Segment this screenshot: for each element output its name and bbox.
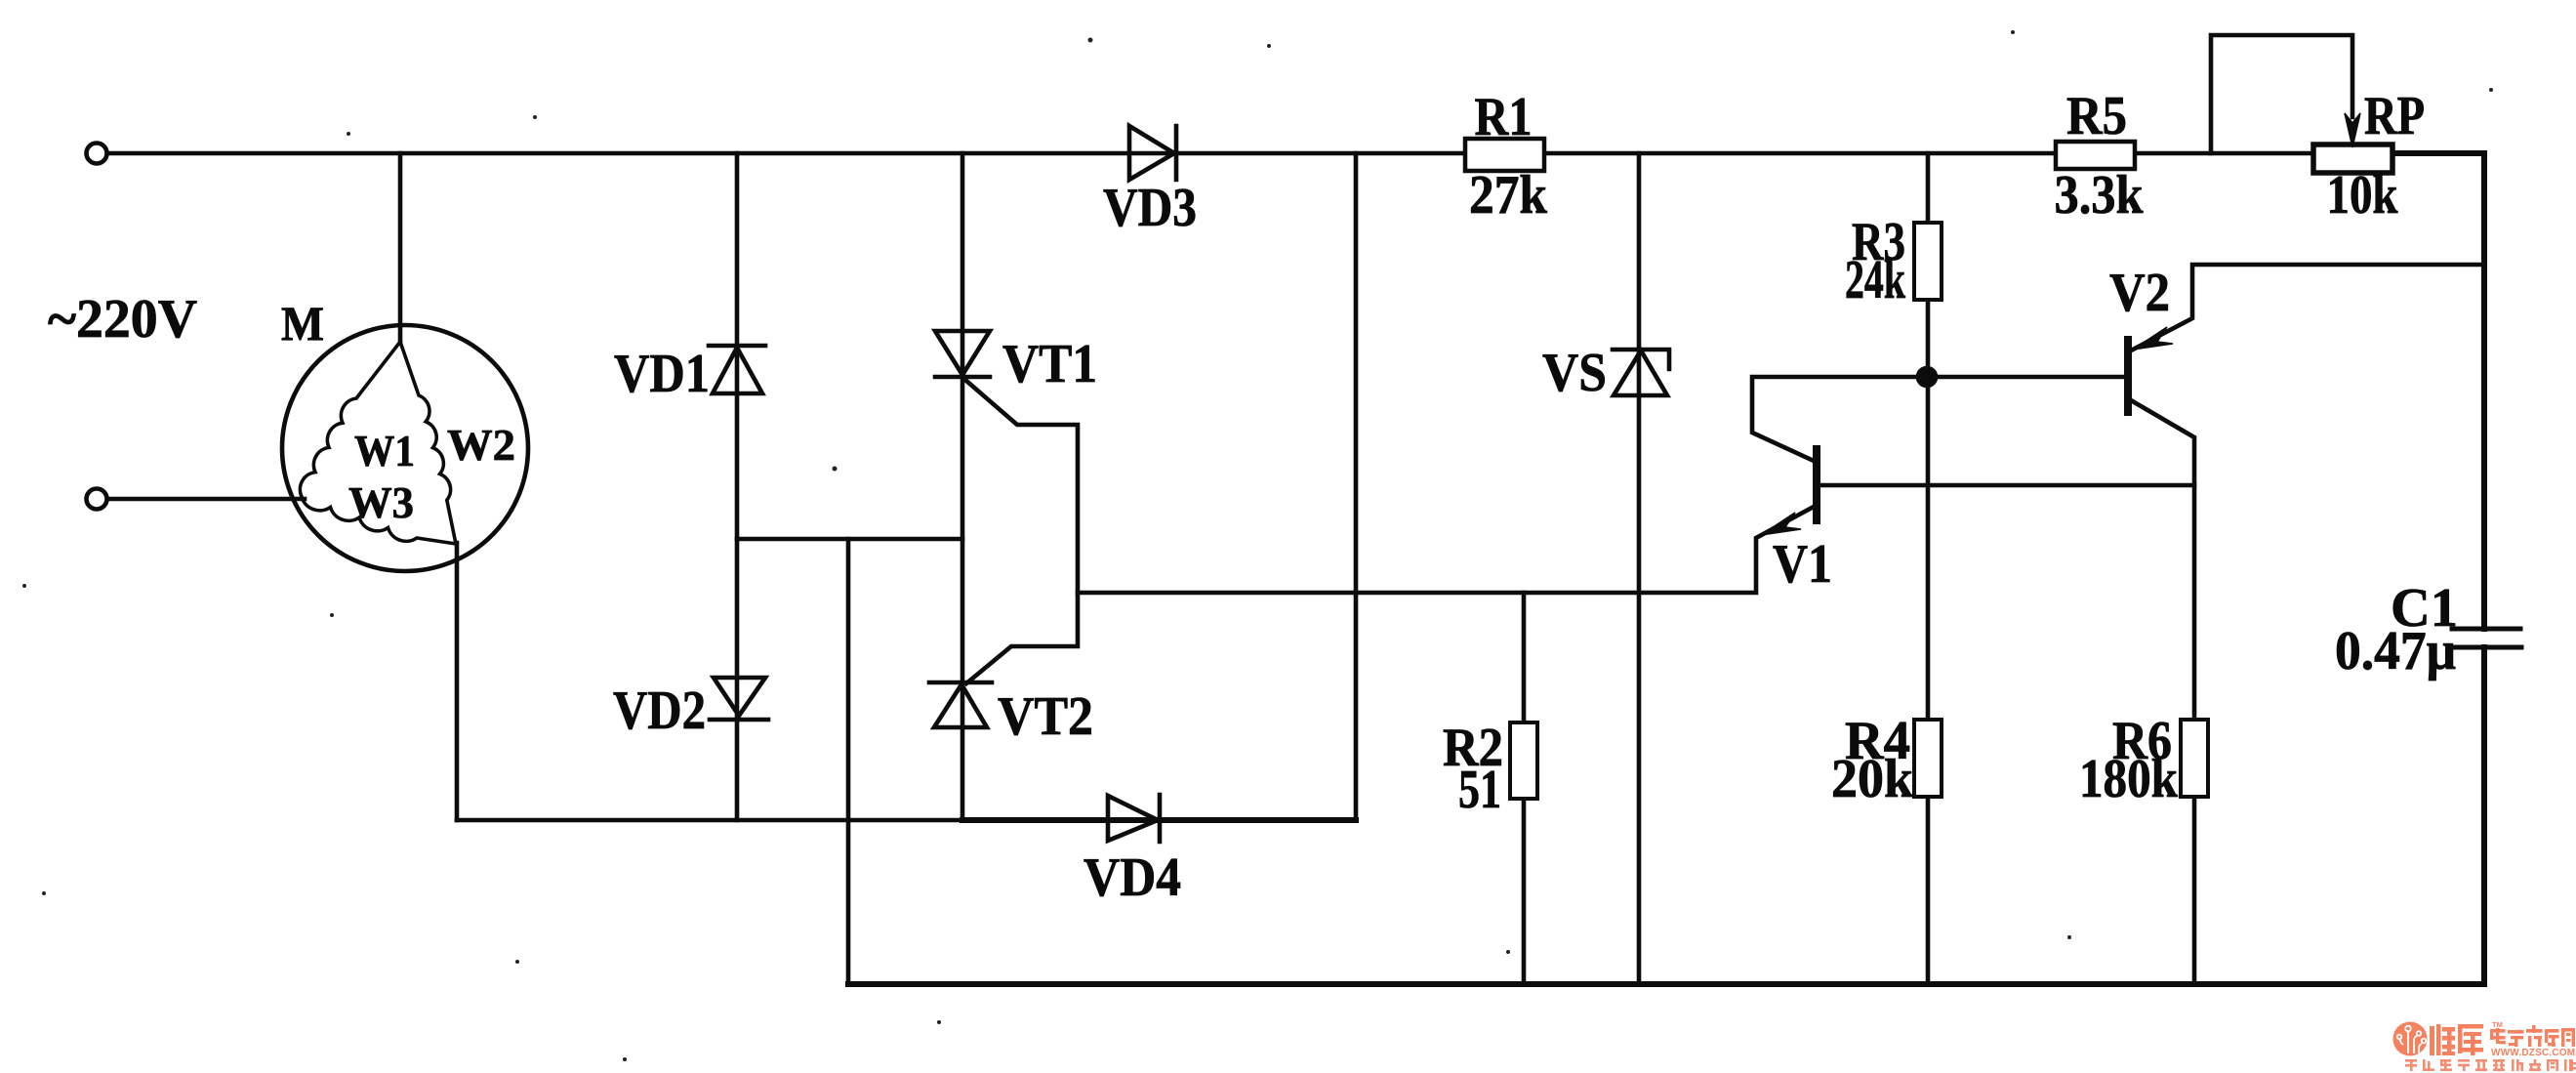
terminal input bottom: [87, 489, 107, 510]
wire R2 branch: [1522, 593, 1527, 984]
transistor V2: [2124, 340, 2132, 412]
wire riser x1389: [1354, 153, 1359, 820]
resistor R4: [1914, 720, 1942, 797]
wire top rail: [107, 151, 2392, 156]
svg-text:20k: 20k: [1831, 749, 1914, 809]
wire R3 R4 branch: [1926, 153, 1931, 984]
wire right rail upper: [2481, 153, 2487, 629]
svg-text:VD4: VD4: [1084, 847, 1181, 908]
thyristor VT1: [935, 331, 990, 377]
svg-text:24k: 24k: [1845, 250, 1906, 310]
wire midpoint link y552: [737, 537, 962, 542]
thyristor VT2: [929, 682, 992, 727]
motor winding W2 right coil: [400, 342, 456, 544]
svg-text:VD1: VD1: [614, 344, 710, 404]
diode VD1: [709, 346, 765, 393]
terminal input top: [87, 144, 107, 164]
wire V2 collector down: [2131, 400, 2194, 984]
wire bottom bus: [848, 981, 2484, 987]
potentiometer RP: [2313, 144, 2392, 173]
resistor R6: [2181, 720, 2208, 797]
svg-text:VT1: VT1: [1002, 334, 1097, 394]
svg-text:W3: W3: [348, 477, 414, 527]
resistor R2: [1510, 722, 1537, 799]
wire V2 emitter to right rail: [2131, 265, 2484, 351]
svg-text:TM: TM: [2492, 1020, 2503, 1029]
wire VS branch: [1637, 153, 1642, 984]
svg-text:VD3: VD3: [1103, 178, 1197, 238]
svg-text:R5: R5: [2066, 86, 2127, 146]
wire right rail lower: [2481, 647, 2487, 984]
svg-text:W1: W1: [354, 426, 415, 475]
wire VT branch vertical: [961, 153, 965, 820]
wire terminal2 to motor: [107, 497, 305, 502]
motor M circle: [282, 325, 528, 571]
transistor V1 emitter arrow: [1761, 513, 1801, 535]
resistor R1: [1465, 139, 1544, 171]
wire y607 emitter net: [1078, 507, 1814, 593]
resistor R3: [1914, 223, 1942, 300]
capacitor C1: [2452, 629, 2521, 647]
diode VD2: [710, 678, 768, 720]
svg-text:VT2: VT2: [998, 686, 1093, 747]
svg-text:~220V: ~220V: [48, 289, 197, 350]
svg-text:W2: W2: [447, 420, 515, 470]
svg-text:3.3k: 3.3k: [2055, 165, 2145, 226]
watermark char wei: [2430, 1024, 2455, 1055]
svg-text:51: 51: [1458, 760, 1501, 820]
svg-text:27k: 27k: [1469, 165, 1548, 226]
resistor R5: [2056, 142, 2135, 169]
wire gate net: [966, 381, 1078, 683]
watermark chars dianzishichangwang: [2490, 1025, 2575, 1047]
potentiometer RP wiper arrow: [2345, 113, 2360, 147]
watermark char ku: [2458, 1024, 2483, 1055]
watermark bottom slogan blocks: [2405, 1059, 2576, 1071]
svg-text:0.47μ: 0.47μ: [2335, 621, 2456, 681]
svg-text:M: M: [281, 296, 324, 351]
svg-text:WWW.DZSC.COM: WWW.DZSC.COM: [2491, 1048, 2575, 1058]
svg-text:V2: V2: [2109, 263, 2170, 323]
svg-text:R1: R1: [1475, 87, 1533, 147]
wire VD branch vertical: [735, 153, 740, 820]
watermark icon circle: [2393, 1022, 2428, 1056]
transistor V2 emitter arrow: [2133, 327, 2173, 350]
node junction dot: [1918, 368, 1936, 386]
svg-text:VD2: VD2: [613, 681, 706, 741]
wire V1 base to V2 collector: [1817, 483, 2194, 488]
wire motor top drop: [398, 153, 403, 344]
svg-text:V1: V1: [1773, 534, 1832, 595]
transistor V1: [1813, 449, 1820, 520]
svg-text:VS: VS: [1542, 343, 1607, 403]
wire bottom y840: [457, 818, 962, 823]
svg-text:180k: 180k: [2079, 749, 2179, 809]
wire motor output drop: [455, 543, 460, 820]
diode VD3: [1129, 126, 1176, 180]
diode VD4: [1108, 795, 1160, 842]
wire left drop x869: [846, 539, 851, 984]
wire RP wiper loop: [2211, 35, 2352, 153]
motor winding W1 left coil: [300, 342, 400, 497]
svg-text:10k: 10k: [2327, 165, 2399, 226]
wire V1 collector to node to V2 base: [1752, 377, 2128, 461]
zener diode VS: [1613, 350, 1669, 395]
svg-text:RP: RP: [2364, 86, 2425, 146]
watermark logo: [2393, 1020, 2576, 1071]
motor winding W3 bottom coil: [302, 497, 456, 544]
